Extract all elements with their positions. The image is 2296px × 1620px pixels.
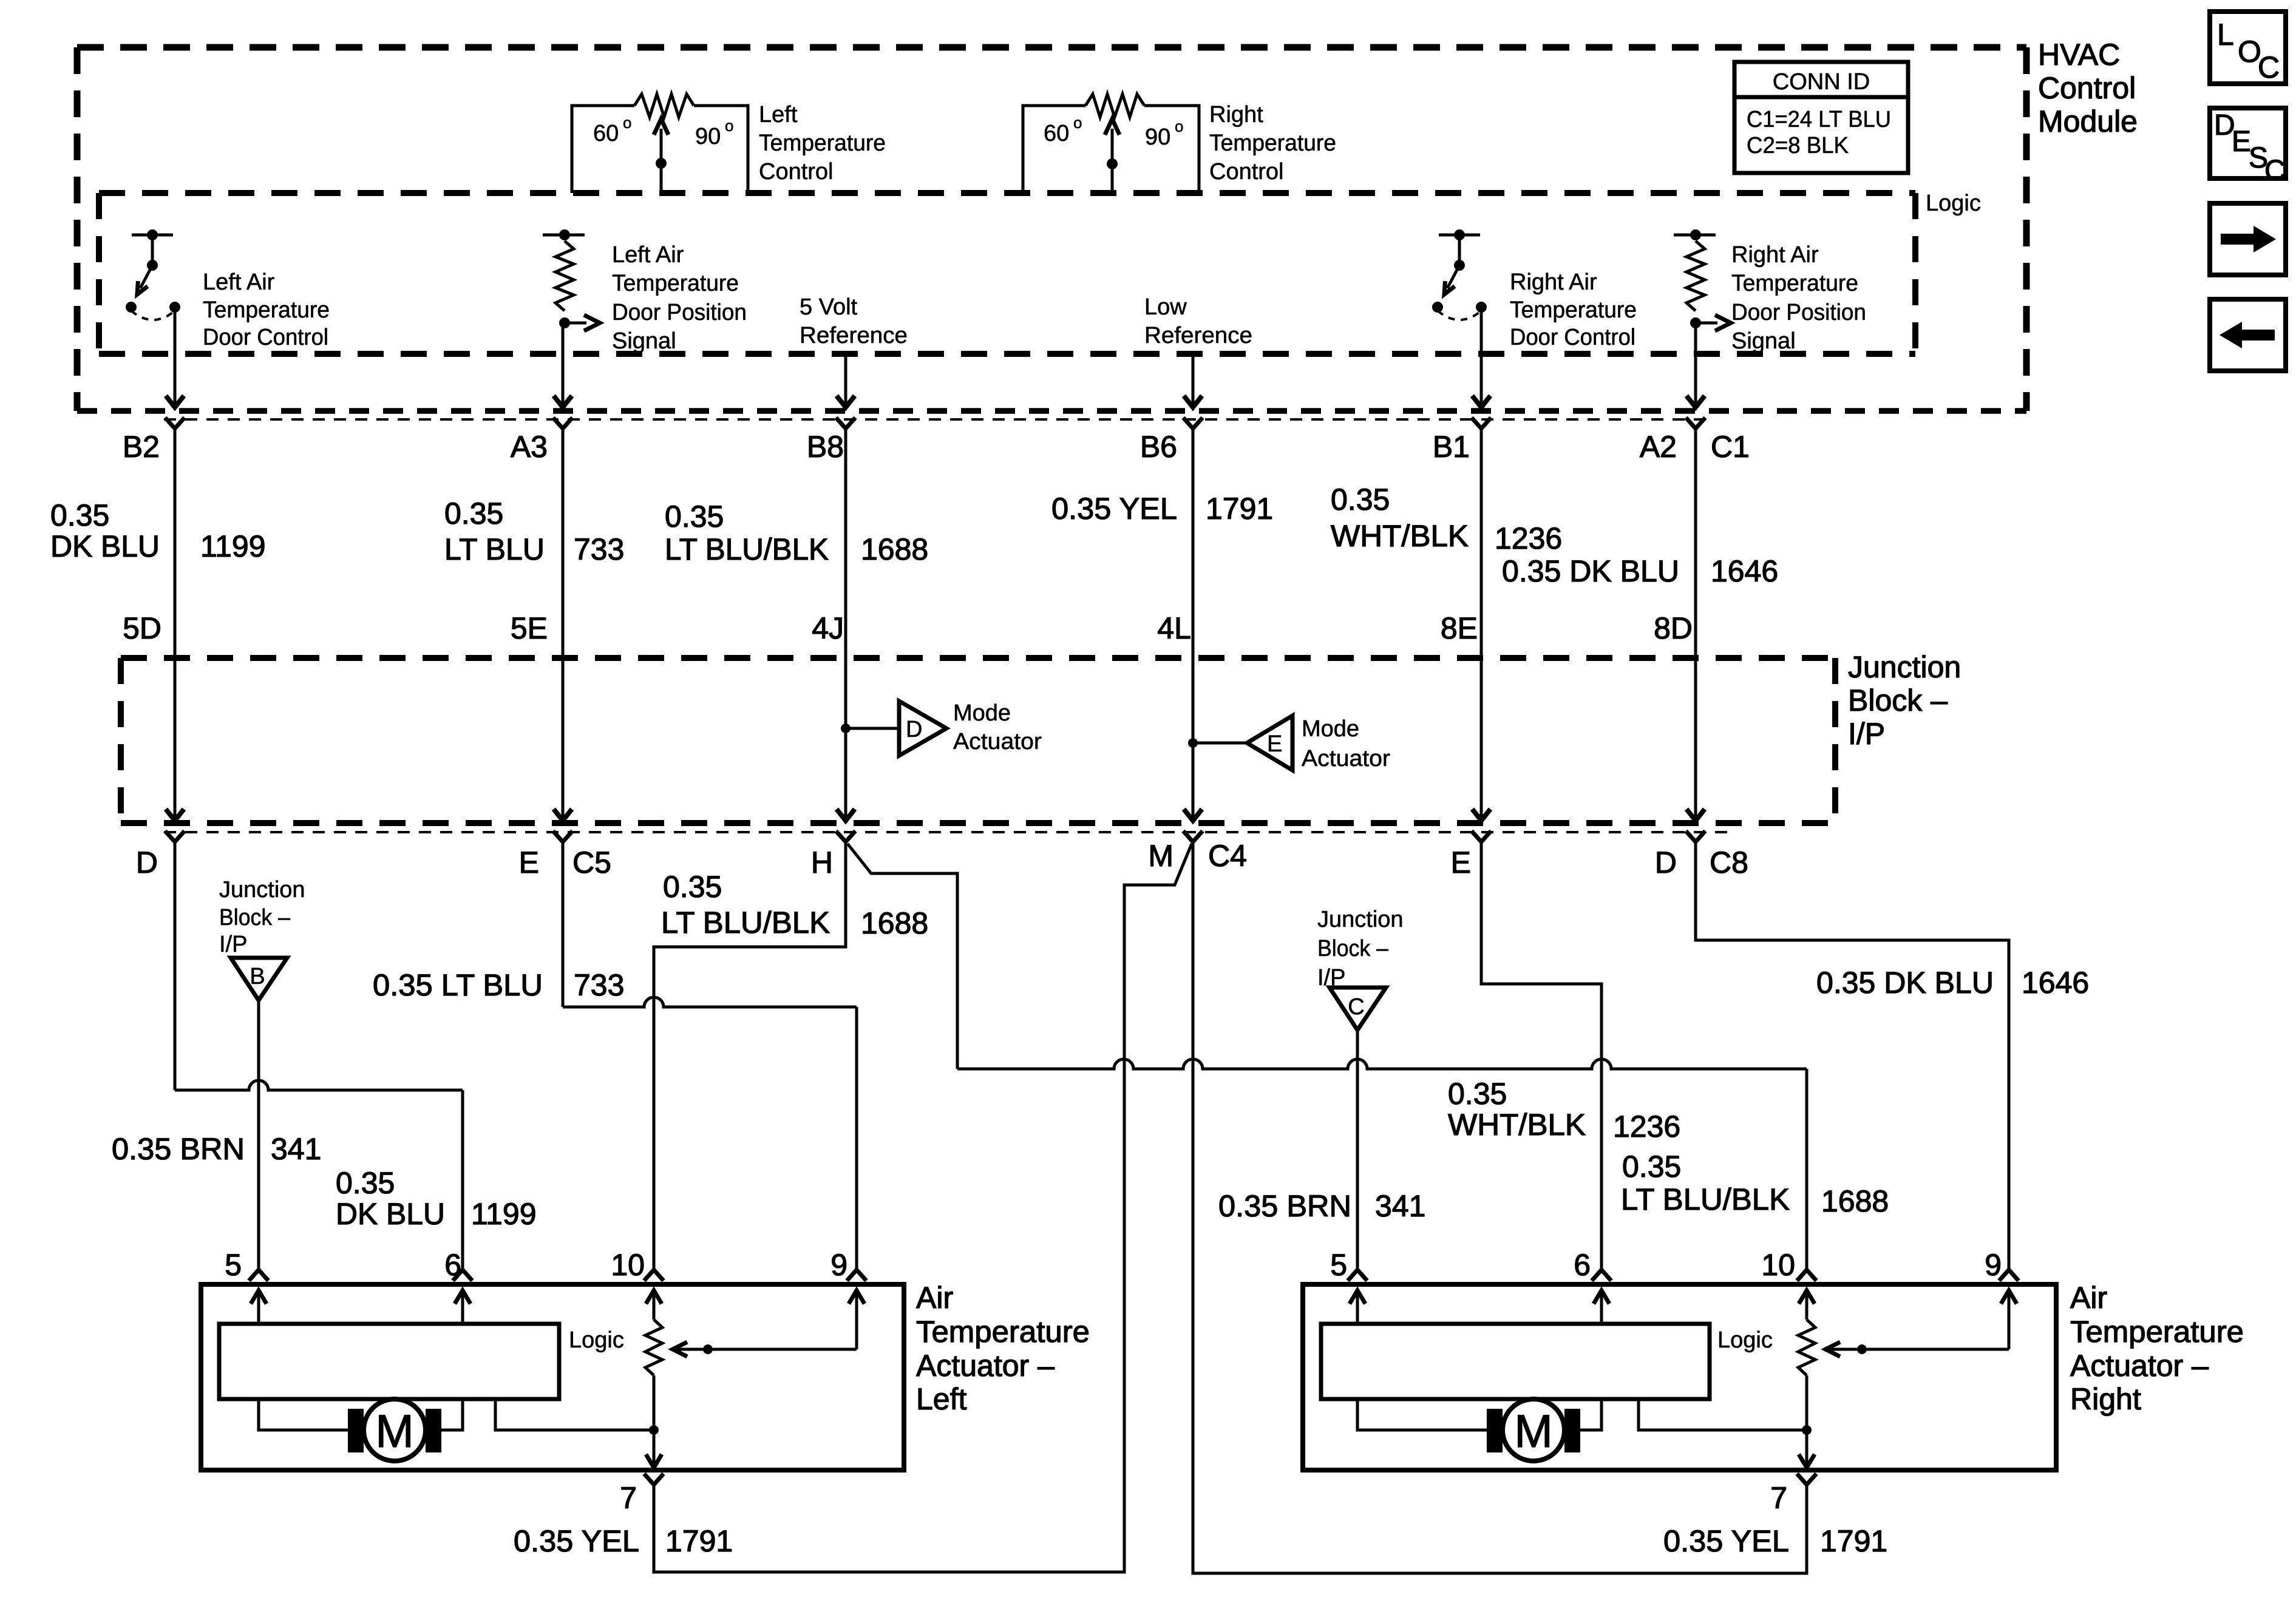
wire C4 branch to right pin7 net 1791 <box>1193 842 1807 1573</box>
pin 7 connector <box>1797 1474 1816 1485</box>
pin 7 connector <box>644 1474 664 1485</box>
svg-text:C2=8 BLK: C2=8 BLK <box>1747 133 1849 158</box>
svg-text:1199: 1199 <box>200 529 266 563</box>
svg-text:Block –: Block – <box>219 905 291 930</box>
pot wiper arm <box>1827 1348 2009 1351</box>
svg-text:I/P: I/P <box>219 932 247 957</box>
svg-text:B8: B8 <box>807 430 844 464</box>
wire 341 BRN right <box>1356 1030 1359 1270</box>
svg-text:1791: 1791 <box>1820 1524 1887 1558</box>
svg-text:D: D <box>136 846 158 879</box>
svg-text:Block –: Block – <box>1317 936 1389 961</box>
svg-text:10: 10 <box>611 1248 645 1282</box>
svg-text:Control: Control <box>759 159 834 185</box>
svg-text:733: 733 <box>574 532 624 566</box>
pin internal lead <box>1805 1292 1809 1320</box>
svg-text:CONN ID: CONN ID <box>1773 69 1870 95</box>
wire 733 LT BLU upper segment <box>562 429 565 819</box>
svg-text:LT BLU/BLK: LT BLU/BLK <box>665 532 829 566</box>
svg-text:Right Air: Right Air <box>1510 269 1597 295</box>
junction block triangle B <box>231 958 287 1000</box>
svg-text:Left Air: Left Air <box>612 242 684 268</box>
potentiometer inside actuator Left <box>645 1320 662 1375</box>
actuator pin chevron <box>1592 1270 1611 1281</box>
svg-text:0.35: 0.35 <box>663 870 722 904</box>
actuator pin chevron <box>453 1270 472 1281</box>
svg-text:1688: 1688 <box>861 906 928 940</box>
svg-text:Door Control: Door Control <box>1510 325 1635 350</box>
wire A3 module segment <box>562 323 565 406</box>
svg-text:Left: Left <box>759 102 798 127</box>
svg-text:DK BLU: DK BLU <box>336 1197 445 1231</box>
svg-text:Low: Low <box>1144 294 1187 320</box>
svg-text:4J: 4J <box>812 611 844 645</box>
svg-text:E: E <box>1267 731 1282 757</box>
svg-text:6: 6 <box>444 1248 461 1282</box>
junction block triangle C <box>1330 988 1386 1030</box>
pin internal lead <box>653 1292 656 1320</box>
HVAC Control Module box <box>77 44 2026 51</box>
svg-text:LT BLU/BLK: LT BLU/BLK <box>1621 1182 1790 1216</box>
svg-text:1688: 1688 <box>1821 1184 1889 1218</box>
resistor R3 Left Air Temperature Door Position Signal <box>543 229 747 354</box>
actuator pin chevron <box>249 1270 268 1281</box>
svg-text:I/P: I/P <box>1848 717 1885 751</box>
svg-text:0.35: 0.35 <box>1448 1077 1507 1111</box>
svg-text:C: C <box>2264 155 2286 187</box>
svg-text:Door Position: Door Position <box>1731 300 1866 325</box>
svg-text:C8: C8 <box>1710 846 1748 879</box>
Air Temperature Actuator Left box <box>201 1284 904 1470</box>
svg-text:1791: 1791 <box>1206 492 1273 526</box>
Logic box <box>99 190 1915 196</box>
svg-text:Temperature: Temperature <box>1510 297 1637 323</box>
pin internal lead <box>855 1292 858 1349</box>
svg-text:C1: C1 <box>1711 430 1750 464</box>
svg-text:60: 60 <box>1044 121 1069 146</box>
pin internal lead <box>257 1292 260 1324</box>
svg-text:0.35 LT BLU: 0.35 LT BLU <box>373 968 543 1002</box>
svg-text:9: 9 <box>1985 1248 2002 1282</box>
svg-text:WHT/BLK: WHT/BLK <box>1448 1108 1586 1142</box>
wire B8 module segment <box>844 354 847 406</box>
actuator pin chevron <box>644 1270 664 1281</box>
svg-text:LT BLU/BLK: LT BLU/BLK <box>661 906 830 940</box>
pin internal lead <box>2008 1292 2011 1349</box>
svg-text:D: D <box>1655 846 1677 879</box>
svg-text:1646: 1646 <box>1711 554 1778 588</box>
mode actuator E triangle <box>1247 716 1292 770</box>
actuator pin chevron <box>847 1270 866 1281</box>
wire 1199 DK BLU upper segment <box>174 429 177 819</box>
svg-text:o: o <box>623 114 631 132</box>
svg-text:7: 7 <box>1770 1481 1787 1515</box>
svg-text:90: 90 <box>1145 124 1170 150</box>
svg-text:Temperature: Temperature <box>2070 1315 2244 1349</box>
svg-text:Logic: Logic <box>1717 1327 1773 1353</box>
svg-text:E: E <box>519 846 539 879</box>
svg-text:0.35: 0.35 <box>1622 1150 1681 1184</box>
svg-text:5E: 5E <box>511 611 548 645</box>
svg-text:B6: B6 <box>1140 430 1177 464</box>
potentiometer R1 Left Temperature Control <box>572 94 886 193</box>
wire 1791 YEL upper segment <box>1192 429 1195 819</box>
wire A2 module segment <box>1694 323 1697 406</box>
svg-text:o: o <box>725 117 733 135</box>
svg-text:1646: 1646 <box>2022 966 2089 1000</box>
svg-text:D: D <box>906 717 922 742</box>
svg-text:Block –: Block – <box>1848 683 1948 717</box>
svg-text:Junction: Junction <box>1317 907 1404 932</box>
svg-text:DK BLU: DK BLU <box>50 529 160 563</box>
connector dashed line row 2 <box>164 831 1730 833</box>
wire 1646 DK BLU upper segment <box>1694 429 1697 819</box>
svg-text:0.35: 0.35 <box>444 497 503 530</box>
wire 1236 WHT/BLK upper segment <box>1480 429 1483 819</box>
connector pin row2 <box>165 831 185 842</box>
svg-text:H: H <box>811 846 833 879</box>
svg-text:Logic: Logic <box>1926 191 1981 216</box>
svg-text:Temperature: Temperature <box>759 130 886 156</box>
svg-text:Actuator –: Actuator – <box>916 1349 1055 1383</box>
Air Temperature Actuator Right box <box>1303 1284 2056 1470</box>
mode actuator E tap <box>1188 738 1198 748</box>
svg-text:Door Position: Door Position <box>612 300 747 325</box>
connector pin row2 <box>1472 831 1491 842</box>
svg-text:WHT/BLK: WHT/BLK <box>1331 519 1469 553</box>
wire D to pin6 1199 <box>174 842 177 1090</box>
svg-text:Control: Control <box>1209 159 1284 185</box>
pin internal lead <box>461 1292 464 1324</box>
connector pin A3 <box>553 418 572 429</box>
svg-text:C4: C4 <box>1208 839 1247 873</box>
svg-text:1199: 1199 <box>471 1197 537 1231</box>
svg-text:M: M <box>1148 839 1173 873</box>
svg-text:Mode: Mode <box>1302 716 1359 742</box>
svg-text:0.35 DK BLU: 0.35 DK BLU <box>1816 966 1994 1000</box>
svg-text:Temperature: Temperature <box>916 1315 1090 1349</box>
mode actuator D triangle <box>899 701 946 756</box>
wire H to pin10 1688 branch A <box>654 842 846 1270</box>
svg-text:1236: 1236 <box>1495 521 1562 555</box>
svg-text:C: C <box>1348 994 1364 1020</box>
svg-text:5 Volt: 5 Volt <box>800 294 858 320</box>
connector pin B2 <box>165 418 185 429</box>
wire 341 BRN left <box>257 1000 260 1270</box>
svg-text:Junction: Junction <box>219 877 305 903</box>
svg-text:Left: Left <box>916 1382 967 1416</box>
wire C5 to pin9 733 <box>562 842 565 1007</box>
connector pin row2 <box>836 831 855 842</box>
svg-text:Temperature: Temperature <box>1209 130 1336 156</box>
svg-text:HVAC: HVAC <box>2038 38 2120 72</box>
svg-text:LT BLU: LT BLU <box>444 532 545 566</box>
svg-text:6: 6 <box>1574 1248 1591 1282</box>
connector pin row2 <box>1686 831 1705 842</box>
svg-text:Logic: Logic <box>569 1327 624 1353</box>
mode actuator D tap <box>841 724 851 733</box>
logic block inside actuator Right <box>1321 1324 1710 1399</box>
svg-text:0.35 YEL: 0.35 YEL <box>1663 1524 1789 1558</box>
svg-text:0.35 YEL: 0.35 YEL <box>514 1524 639 1558</box>
svg-text:o: o <box>1073 114 1082 132</box>
svg-text:7: 7 <box>620 1481 637 1515</box>
svg-text:Actuator: Actuator <box>953 729 1042 754</box>
svg-text:0.35: 0.35 <box>1331 483 1390 517</box>
wire 1791 YEL stub <box>1805 1485 1809 1572</box>
back arrow icon <box>2210 299 2286 371</box>
svg-text:Mode: Mode <box>953 700 1011 726</box>
motor M actuator Right <box>1487 1409 1503 1452</box>
svg-text:Right: Right <box>2070 1382 2141 1416</box>
svg-text:9: 9 <box>830 1248 847 1282</box>
svg-text:C5: C5 <box>572 846 611 879</box>
connector pin B6 <box>1183 418 1203 429</box>
svg-text:341: 341 <box>1375 1189 1425 1223</box>
svg-text:M: M <box>1514 1406 1552 1457</box>
resistor R4 Right Air Temperature Door Position Signal <box>1674 229 1866 354</box>
svg-text:A2: A2 <box>1640 430 1677 464</box>
svg-text:Reference: Reference <box>800 323 908 348</box>
pin internal lead <box>1600 1292 1603 1324</box>
logic to pot lead <box>495 1399 654 1430</box>
HVAC Control Module label <box>2038 38 2138 138</box>
potentiometer inside actuator Right <box>1798 1320 1815 1375</box>
svg-text:1236: 1236 <box>1613 1110 1680 1144</box>
svg-text:5D: 5D <box>123 611 161 645</box>
svg-text:Left Air: Left Air <box>203 269 275 295</box>
svg-text:0.35: 0.35 <box>336 1166 395 1200</box>
svg-text:0.35 BRN: 0.35 BRN <box>1218 1189 1351 1223</box>
motor M actuator Left <box>348 1409 364 1452</box>
svg-text:Temperature: Temperature <box>612 271 739 296</box>
svg-text:Temperature: Temperature <box>203 297 330 323</box>
svg-text:o: o <box>1175 117 1183 135</box>
svg-text:8D: 8D <box>1654 611 1693 645</box>
svg-text:Door Control: Door Control <box>203 325 328 350</box>
svg-text:0.35 BRN: 0.35 BRN <box>112 1132 245 1166</box>
svg-text:Signal: Signal <box>1731 328 1796 354</box>
svg-text:60: 60 <box>593 121 619 146</box>
svg-text:0.35: 0.35 <box>665 500 724 534</box>
svg-text:90: 90 <box>695 124 721 149</box>
pot wiper arm <box>674 1348 857 1351</box>
svg-text:5: 5 <box>225 1248 242 1282</box>
CONN ID table <box>1734 62 1908 173</box>
svg-text:0.35: 0.35 <box>50 498 109 532</box>
svg-text:4L: 4L <box>1157 611 1191 645</box>
svg-text:A3: A3 <box>511 430 548 464</box>
svg-text:1791: 1791 <box>665 1524 733 1558</box>
svg-text:10: 10 <box>1761 1248 1795 1282</box>
potentiometer R2 Right Temperature Control <box>1023 94 1336 193</box>
svg-text:Junction: Junction <box>1848 650 1961 684</box>
wire 1791 YEL stub <box>653 1485 656 1572</box>
svg-text:L: L <box>2217 18 2234 52</box>
svg-text:Actuator –: Actuator – <box>2070 1349 2209 1383</box>
svg-text:0.35 YEL: 0.35 YEL <box>1051 492 1177 526</box>
switch S1 Left Air Temperature Door Control <box>126 229 330 350</box>
actuator pin chevron <box>1999 1270 2019 1281</box>
LOC icon <box>2210 12 2286 84</box>
motor lead right <box>1580 1399 1601 1430</box>
motor lead left <box>259 1399 348 1430</box>
svg-text:B: B <box>250 964 265 989</box>
connector pin row2 <box>553 831 572 842</box>
connector pin row2 <box>1183 831 1203 842</box>
connector pin B1 <box>1472 418 1491 429</box>
wire C8 to right pin9 1646 <box>1696 842 2009 1270</box>
svg-text:5: 5 <box>1330 1248 1347 1282</box>
svg-text:Air: Air <box>916 1281 953 1315</box>
Junction Block I/P box <box>121 655 1835 661</box>
svg-text:1688: 1688 <box>861 532 928 566</box>
svg-text:Right Air: Right Air <box>1731 242 1819 268</box>
pin internal lead <box>1356 1292 1359 1324</box>
svg-text:341: 341 <box>271 1132 321 1166</box>
wire B1 module segment <box>1480 307 1483 406</box>
connector dashed line row 1 <box>164 418 1706 421</box>
svg-text:733: 733 <box>574 968 624 1002</box>
wire M branch to left pin7 net 1791 <box>654 844 1192 1572</box>
DESC icon <box>2210 108 2286 187</box>
svg-text:Reference: Reference <box>1144 323 1252 348</box>
logic to pot lead <box>1639 1399 1807 1430</box>
svg-text:Control: Control <box>2038 71 2136 105</box>
wire H to right pin10 1688 branch B <box>847 844 957 1069</box>
svg-text:E: E <box>1451 846 1471 879</box>
svg-text:Module: Module <box>2038 104 2138 138</box>
svg-text:Temperature: Temperature <box>1731 271 1858 296</box>
svg-text:M: M <box>375 1406 413 1457</box>
forward arrow icon <box>2210 203 2286 275</box>
wire E right to pin6 1236 <box>1481 842 1601 1270</box>
svg-text:C1=24 LT BLU: C1=24 LT BLU <box>1747 107 1891 132</box>
actuator pin chevron <box>1797 1270 1816 1281</box>
logic block inside actuator Left <box>219 1324 559 1399</box>
svg-text:Actuator: Actuator <box>1302 746 1390 771</box>
motor lead right <box>441 1399 463 1430</box>
svg-text:B2: B2 <box>123 430 160 464</box>
actuator pin chevron <box>1348 1270 1367 1281</box>
svg-text:Signal: Signal <box>612 328 676 354</box>
connector pin B8 <box>836 418 855 429</box>
svg-text:Air: Air <box>2070 1281 2107 1315</box>
svg-text:B1: B1 <box>1433 430 1470 464</box>
svg-text:0.35 DK BLU: 0.35 DK BLU <box>1502 554 1679 588</box>
wire 1688 LT BLU/BLK upper segment <box>844 429 847 819</box>
switch S2 Right Air Temperature Door Control <box>1432 229 1637 350</box>
wire B2 module segment <box>174 307 177 406</box>
svg-text:8E: 8E <box>1441 611 1478 645</box>
connector pin A2 <box>1686 418 1705 429</box>
wire B6 module segment <box>1192 354 1195 406</box>
motor lead left <box>1357 1399 1487 1430</box>
svg-text:C: C <box>2258 50 2280 84</box>
svg-text:Right: Right <box>1209 102 1263 127</box>
